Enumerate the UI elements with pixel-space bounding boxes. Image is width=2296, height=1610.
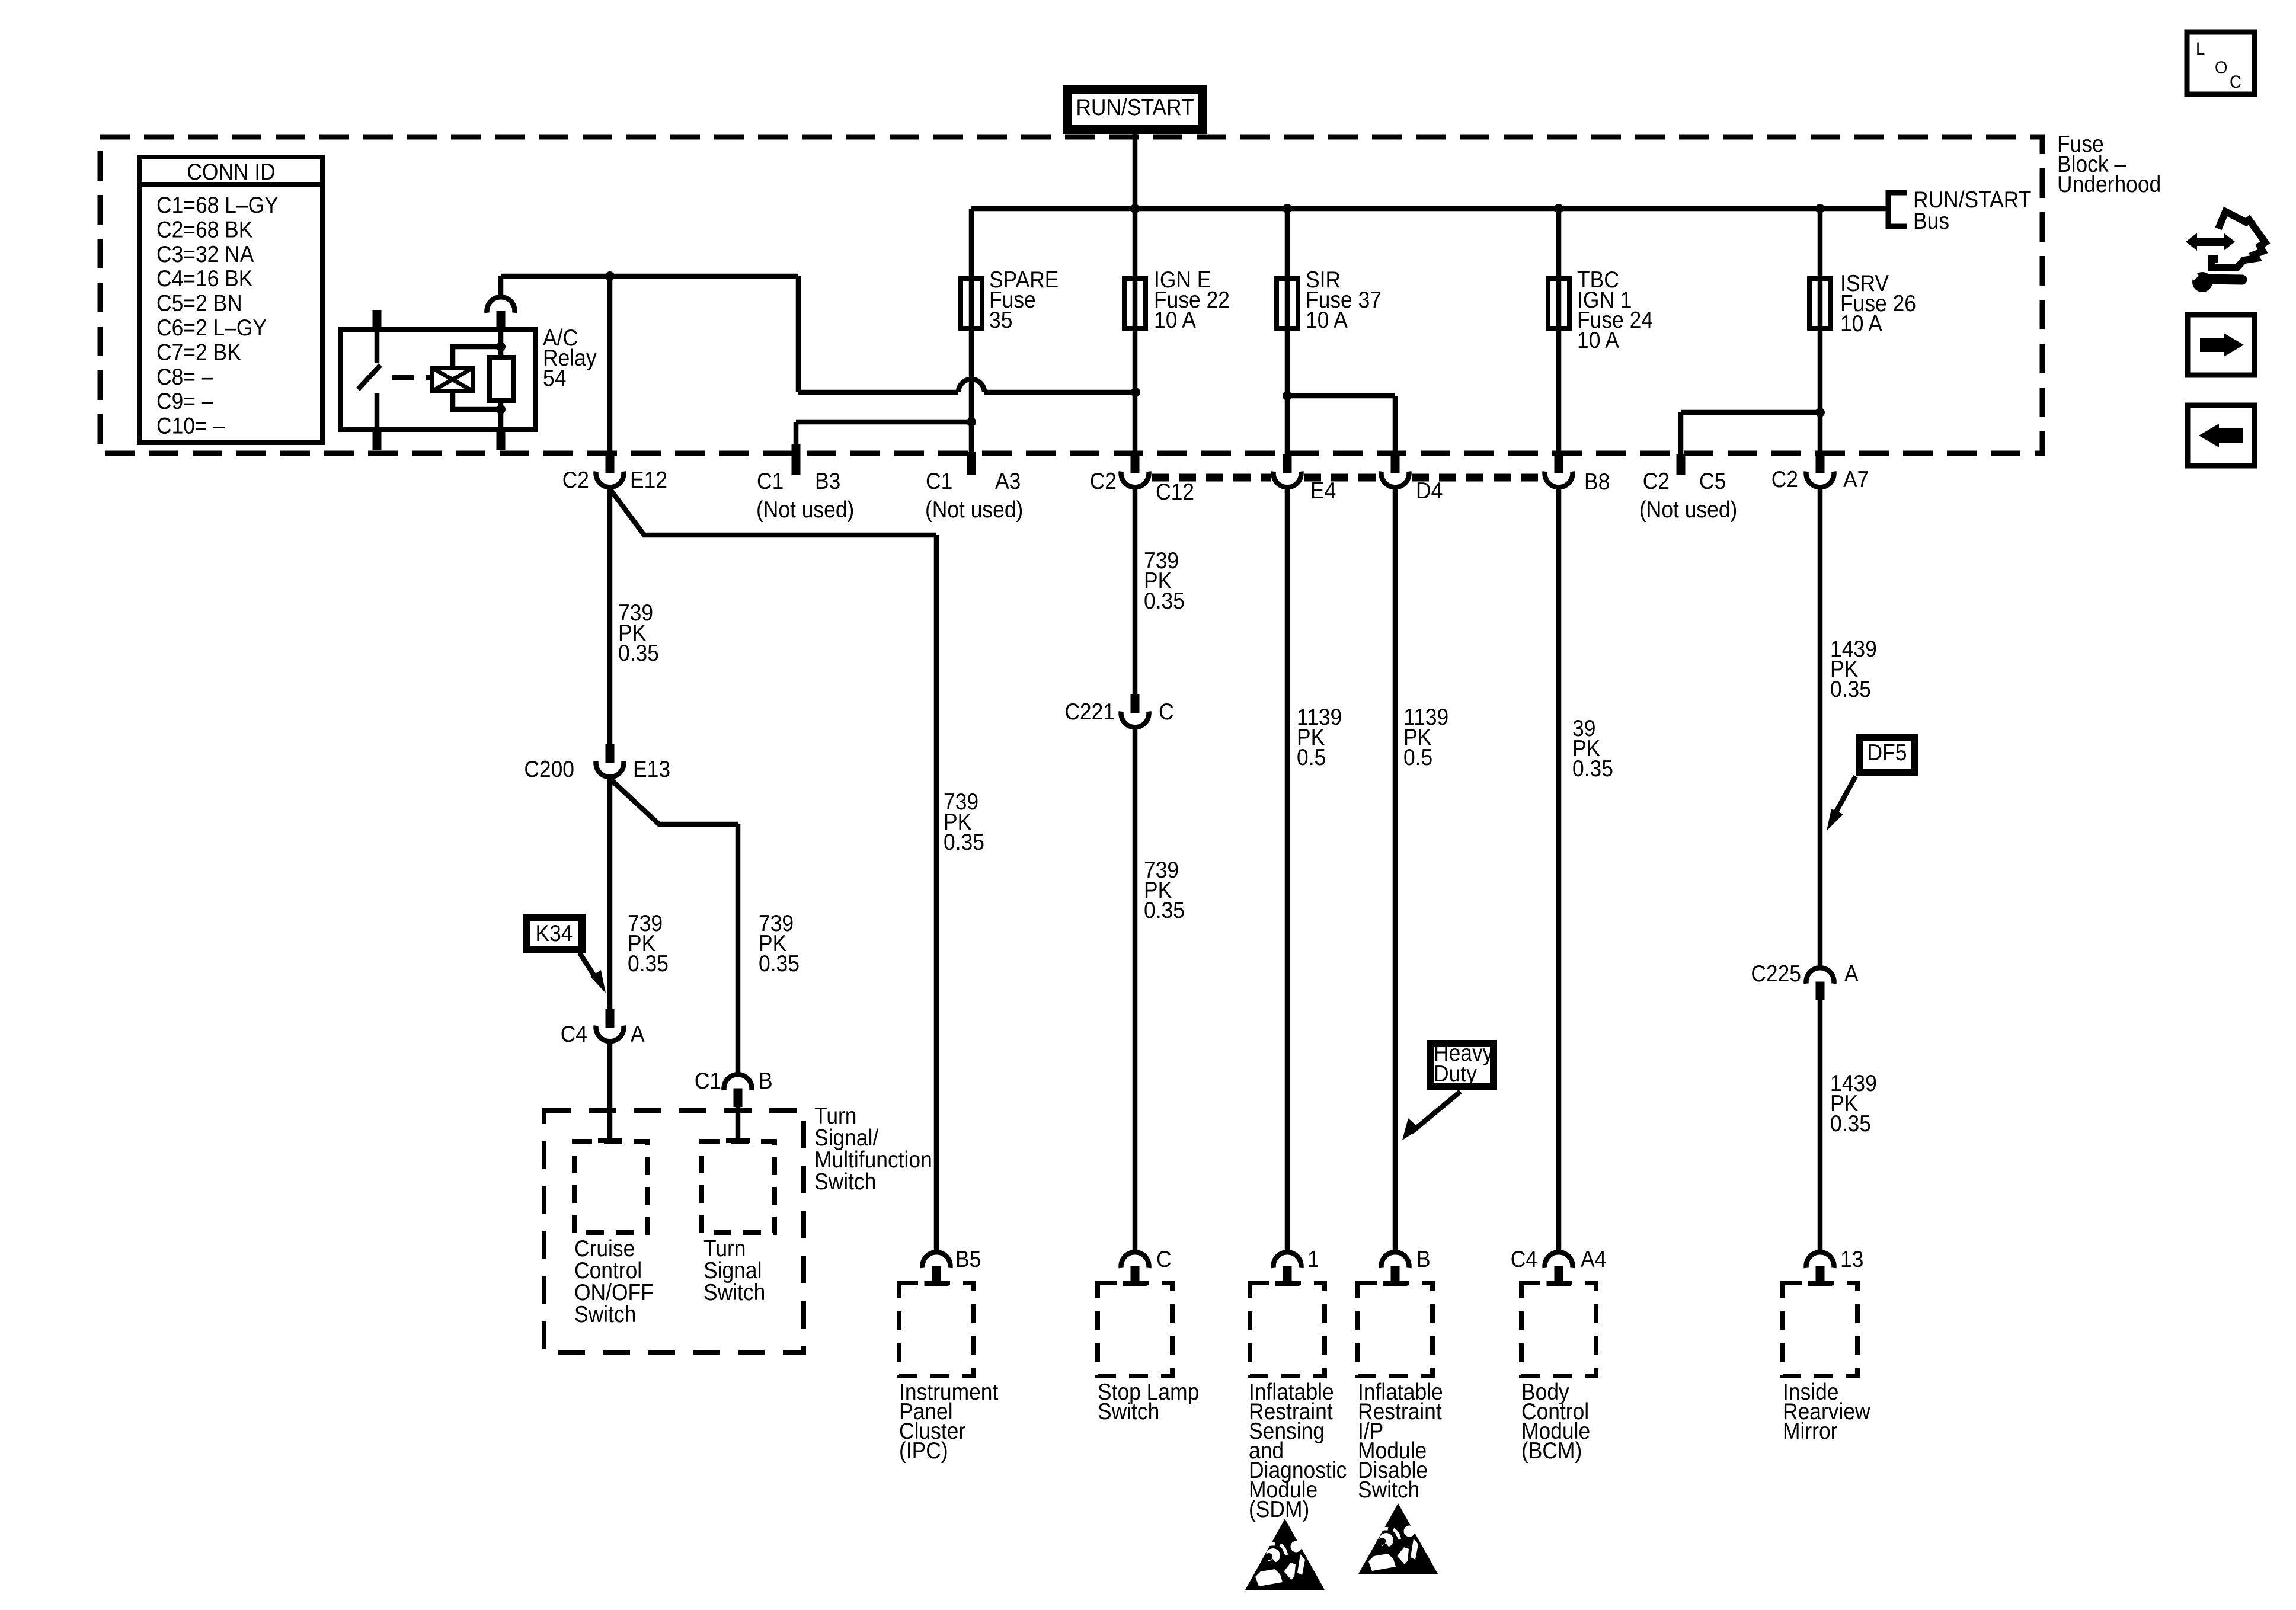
svg-text:E12: E12 bbox=[630, 468, 667, 493]
svg-text:A: A bbox=[631, 1022, 645, 1047]
svg-text:E13: E13 bbox=[633, 757, 670, 782]
svg-text:0.35: 0.35 bbox=[944, 830, 984, 855]
svg-text:B: B bbox=[1416, 1247, 1431, 1272]
svg-text:(SDM): (SDM) bbox=[1249, 1497, 1309, 1522]
svg-text:A3: A3 bbox=[995, 469, 1021, 494]
svg-text:Underhood: Underhood bbox=[2057, 172, 2161, 197]
svg-text:Switch: Switch bbox=[814, 1169, 876, 1195]
svg-text:0.35: 0.35 bbox=[1144, 898, 1185, 923]
svg-text:Mirror: Mirror bbox=[1783, 1419, 1837, 1444]
svg-text:O: O bbox=[2215, 58, 2227, 78]
svg-text:RUN/START: RUN/START bbox=[1076, 95, 1194, 120]
svg-text:B5: B5 bbox=[955, 1247, 981, 1272]
svg-text:C221: C221 bbox=[1064, 699, 1115, 725]
svg-text:13: 13 bbox=[1840, 1247, 1863, 1272]
svg-text:L: L bbox=[2196, 39, 2205, 59]
svg-text:C1: C1 bbox=[926, 469, 952, 494]
svg-text:K34: K34 bbox=[535, 921, 573, 946]
svg-text:0.35: 0.35 bbox=[1144, 588, 1185, 614]
svg-text:0.35: 0.35 bbox=[618, 641, 659, 666]
svg-text:DF5: DF5 bbox=[1868, 740, 1907, 766]
svg-text:C9= –: C9= – bbox=[156, 389, 213, 414]
svg-text:10 A: 10 A bbox=[1154, 308, 1196, 333]
svg-text:C3=32 NA: C3=32 NA bbox=[156, 241, 254, 267]
svg-text:C4: C4 bbox=[561, 1022, 587, 1047]
svg-text:(IPC): (IPC) bbox=[899, 1438, 948, 1464]
svg-text:C2: C2 bbox=[1090, 469, 1117, 494]
svg-text:C4: C4 bbox=[1511, 1247, 1537, 1272]
svg-text:E4: E4 bbox=[1310, 478, 1336, 504]
svg-text:C200: C200 bbox=[524, 757, 574, 782]
svg-text:0.35: 0.35 bbox=[759, 951, 800, 977]
svg-text:10 A: 10 A bbox=[1577, 328, 1619, 353]
svg-text:C2: C2 bbox=[1771, 467, 1798, 492]
svg-text:C12: C12 bbox=[1156, 479, 1194, 505]
svg-text:1: 1 bbox=[1307, 1247, 1319, 1272]
svg-text:B8: B8 bbox=[1584, 469, 1610, 495]
svg-text:B: B bbox=[759, 1068, 773, 1094]
svg-text:C5: C5 bbox=[1699, 469, 1726, 494]
svg-text:Switch: Switch bbox=[574, 1302, 636, 1327]
svg-text:A4: A4 bbox=[1581, 1247, 1606, 1272]
svg-text:B3: B3 bbox=[815, 469, 840, 494]
svg-text:C: C bbox=[1159, 699, 1174, 725]
svg-text:Duty: Duty bbox=[1434, 1061, 1477, 1087]
svg-text:(Not used): (Not used) bbox=[756, 497, 854, 523]
svg-text:C: C bbox=[2230, 72, 2241, 92]
svg-text:CONN ID: CONN ID bbox=[187, 159, 276, 185]
svg-text:C2: C2 bbox=[562, 468, 589, 493]
svg-text:0.5: 0.5 bbox=[1403, 745, 1432, 770]
svg-text:Switch: Switch bbox=[703, 1280, 765, 1305]
svg-text:C1=68 L–GY: C1=68 L–GY bbox=[156, 193, 279, 218]
svg-text:0.35: 0.35 bbox=[1830, 1111, 1871, 1137]
svg-text:Switch: Switch bbox=[1358, 1477, 1419, 1503]
svg-text:54: 54 bbox=[543, 366, 566, 391]
svg-text:C4=16 BK: C4=16 BK bbox=[156, 266, 253, 292]
svg-text:A: A bbox=[1844, 961, 1859, 987]
svg-text:A7: A7 bbox=[1843, 467, 1869, 492]
svg-text:C2=68 BK: C2=68 BK bbox=[156, 217, 253, 242]
svg-text:C6=2 L–GY: C6=2 L–GY bbox=[156, 315, 267, 341]
svg-text:10 A: 10 A bbox=[1306, 308, 1348, 333]
svg-text:35: 35 bbox=[989, 308, 1012, 333]
svg-text:Switch: Switch bbox=[1098, 1399, 1159, 1425]
svg-text:10 A: 10 A bbox=[1840, 311, 1882, 337]
svg-text:0.5: 0.5 bbox=[1297, 745, 1326, 770]
svg-text:Bus: Bus bbox=[1913, 209, 1949, 234]
svg-text:0.35: 0.35 bbox=[628, 951, 669, 977]
svg-text:C1: C1 bbox=[695, 1068, 721, 1094]
svg-text:0.35: 0.35 bbox=[1572, 756, 1613, 782]
svg-text:C10= –: C10= – bbox=[156, 413, 225, 438]
svg-text:C1: C1 bbox=[757, 469, 784, 494]
svg-text:C5=2 BN: C5=2 BN bbox=[156, 290, 242, 316]
svg-text:C225: C225 bbox=[1751, 961, 1801, 987]
svg-text:C7=2 BK: C7=2 BK bbox=[156, 340, 241, 365]
svg-text:D4: D4 bbox=[1416, 478, 1443, 504]
svg-text:(Not used): (Not used) bbox=[925, 497, 1023, 523]
svg-text:C8= –: C8= – bbox=[156, 364, 213, 389]
svg-text:0.35: 0.35 bbox=[1830, 677, 1871, 702]
svg-text:C: C bbox=[1156, 1247, 1172, 1272]
svg-text:(Not used): (Not used) bbox=[1639, 497, 1737, 523]
svg-text:(BCM): (BCM) bbox=[1521, 1438, 1582, 1464]
svg-text:C2: C2 bbox=[1643, 469, 1670, 494]
